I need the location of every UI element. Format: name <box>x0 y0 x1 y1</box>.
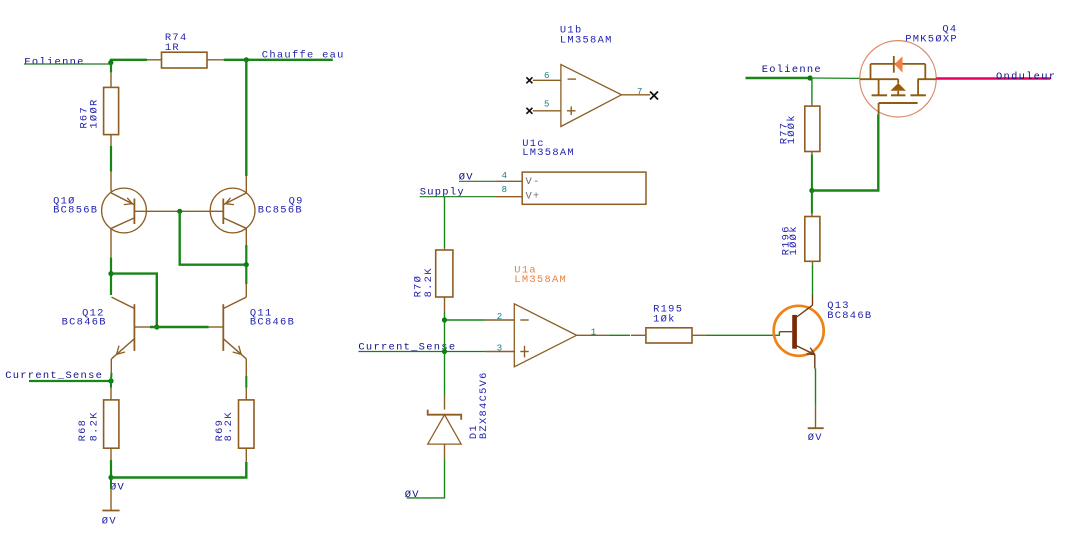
value BC846B (Q12) <box>62 317 107 329</box>
svg-text:8.2K: 8.2K <box>88 411 100 441</box>
wire R74 to Chauffe_eau <box>224 59 333 61</box>
ground 0V (left) <box>102 478 119 511</box>
value BC846B (Q11) <box>250 317 295 329</box>
svg-text:Onduleur: Onduleur <box>996 71 1056 83</box>
transistor Q9 (PNP BC856B) <box>210 188 255 245</box>
wire Q10 base to Q9 base <box>134 210 223 212</box>
wire Eolienne junction to R74 <box>111 60 147 64</box>
plus sign U1a <box>520 346 528 358</box>
node Current_Sense (left net label) <box>5 370 103 382</box>
pin number 4 <box>502 171 507 181</box>
junction dot Chauffe_eau branch <box>244 57 249 62</box>
label R69 (rotated) <box>214 419 226 442</box>
node Eolienne (right net label) <box>762 64 822 76</box>
svg-text:8: 8 <box>502 185 507 195</box>
value 10k <box>653 314 676 326</box>
minus sign U1a <box>520 319 528 321</box>
wire Q13 emitter to ground <box>814 355 817 405</box>
value PMK50XP <box>905 33 958 45</box>
wire junction down to Q9 emitter <box>245 60 247 193</box>
junction dot Current_Sense <box>108 378 113 383</box>
wire Eolienne to Q4 source <box>746 77 860 80</box>
label Q11 <box>250 308 273 320</box>
ground 0V (right) <box>808 404 824 428</box>
node Supply (net label) <box>420 187 465 199</box>
svg-text:7: 7 <box>637 87 642 97</box>
wire Q10 collector to Q12 collector <box>110 258 112 295</box>
value 100k (R77, rotated) <box>786 114 798 144</box>
op-amp U1a <box>514 304 576 367</box>
svg-text:Chauffe eau: Chauffe eau <box>262 50 345 62</box>
wire R68 to 0V rail <box>110 448 112 477</box>
resistor R67 <box>104 87 119 134</box>
svg-text:1ØØk: 1ØØk <box>786 114 798 144</box>
svg-text:4: 4 <box>502 171 507 181</box>
pin number 7 <box>637 87 642 97</box>
svg-text:Eolienne: Eolienne <box>762 64 822 76</box>
label Q9 <box>289 195 304 207</box>
wire R70 to pin 2 junction <box>444 297 446 320</box>
label R68 (rotated) <box>77 419 89 442</box>
substrate arrow of Q4 <box>890 83 906 91</box>
label 0V (ground right) <box>808 432 823 444</box>
pin 7 output stub <box>622 94 651 96</box>
pin number 2 <box>497 312 502 322</box>
value 100R (rotated) <box>89 98 101 128</box>
wire Supply down to R70 <box>444 197 446 250</box>
svg-text:BC856B: BC856B <box>53 205 98 217</box>
label R196 (rotated) <box>780 225 792 255</box>
svg-text:Eolienne: Eolienne <box>24 56 84 68</box>
pin number 6 <box>544 71 549 81</box>
op-amp U1c power box <box>522 172 646 204</box>
junction dot Q10 collector <box>108 271 113 276</box>
wire junction down to R77 <box>811 78 813 106</box>
value LM358AM (U1b) <box>560 34 613 46</box>
svg-text:6: 6 <box>544 71 549 81</box>
wire Current_Sense <box>29 380 111 382</box>
wire R67 to Q10 emitter <box>110 135 112 189</box>
wire junction to Q4 gate <box>812 115 878 191</box>
node Current_Sense (middle net label) <box>358 342 456 354</box>
resistor R69 <box>239 400 255 448</box>
svg-text:1Øk: 1Øk <box>653 314 676 326</box>
node Eolienne (left net label) <box>24 56 84 68</box>
value 8.2K (R68, rotated) <box>88 411 100 441</box>
node 0V (D1 net label) <box>405 489 420 501</box>
pin number 8 <box>502 185 507 195</box>
minus sign U1b <box>568 78 576 80</box>
junction dot Eolienne/R77 <box>807 75 812 80</box>
svg-text:BC846B: BC846B <box>250 317 295 329</box>
svg-text:8.2K: 8.2K <box>223 411 235 441</box>
resistor R195 <box>646 328 692 343</box>
wire Q13 collector up to R196 <box>812 261 814 305</box>
label U1b <box>560 25 583 37</box>
op-amp U1b <box>561 65 622 127</box>
svg-text:3: 3 <box>497 343 502 353</box>
resistor R74 <box>147 52 224 68</box>
wire Onduleur (magenta) <box>936 77 1050 79</box>
wire R77 to R196 <box>811 152 813 191</box>
node 0V (U1c pin 4 net label) <box>459 171 474 183</box>
resistor R68 <box>104 400 119 448</box>
transistor Q4 (P-MOSFET PMK50XP) <box>860 41 936 117</box>
label Q10 <box>53 195 76 207</box>
svg-text:2: 2 <box>497 312 502 322</box>
wire junction to R68 <box>110 381 112 400</box>
label R77 (rotated) <box>779 122 791 145</box>
junction dot PNP bases <box>177 209 182 214</box>
node 0V (net label left) <box>110 482 125 494</box>
wire 0V bottom rail <box>111 448 246 477</box>
svg-text:R68: R68 <box>77 419 89 442</box>
svg-text:LM358AM: LM358AM <box>560 34 613 46</box>
value BC856B (Q10) <box>53 205 98 217</box>
svg-text:V+: V+ <box>526 190 541 202</box>
wire Eolienne label stub <box>24 63 111 65</box>
svg-text:ØV: ØV <box>102 516 117 528</box>
label 0V (ground left) <box>102 516 117 528</box>
value BC856B (Q9) <box>258 205 303 217</box>
svg-text:ØV: ØV <box>808 432 823 444</box>
wire D1 to 0V <box>407 444 445 498</box>
no-connect X pin 7 <box>650 92 658 100</box>
pin 5 stub <box>533 110 561 112</box>
wire cross link to NPN bases <box>111 274 157 327</box>
value LM358AM (U1a, orange) <box>514 274 567 286</box>
wire junction down to R196 <box>811 191 813 217</box>
wire Current_Sense to pin 3 <box>358 351 514 353</box>
wire junction to pin 2 <box>445 319 515 321</box>
svg-text:5: 5 <box>544 100 549 110</box>
svg-text:ØV: ØV <box>110 482 125 494</box>
resistor R77 <box>805 106 820 151</box>
value 8.2K (R70, rotated) <box>423 267 435 297</box>
junction dot pin 2 <box>442 317 447 322</box>
pin number 3 <box>497 343 502 353</box>
svg-text:BC846B: BC846B <box>827 310 872 322</box>
svg-text:1ØØR: 1ØØR <box>89 98 101 128</box>
pin 1 output wire <box>577 334 646 336</box>
wire down to Q11 collector <box>245 265 247 297</box>
value 100k (R196, rotated) <box>788 225 800 255</box>
pin name V- <box>526 176 541 188</box>
label Q13 <box>827 300 850 312</box>
label Q4 <box>942 24 957 36</box>
value 1R <box>165 42 180 54</box>
value BC846B (Q13) <box>827 310 872 322</box>
svg-text:1R: 1R <box>165 42 180 54</box>
resistor R196 <box>805 217 820 262</box>
svg-text:BC856B: BC856B <box>258 205 303 217</box>
wire junction down to R67 <box>110 63 112 88</box>
junction dot Eolienne/R67 <box>108 60 113 65</box>
value LM358AM (U1c) <box>522 147 575 159</box>
junction dot Q9 collector <box>244 262 249 267</box>
transistor Q10 (PNP BC856B) <box>102 188 147 258</box>
svg-text:8.2K: 8.2K <box>423 267 435 297</box>
wire R195 to Q13 base <box>692 332 792 336</box>
pin number 5 <box>544 100 549 110</box>
label R70 (rotated) <box>413 275 425 298</box>
svg-text:BZX84C5V6: BZX84C5V6 <box>478 371 490 439</box>
transistor Q13 (NPN BC846B, highlighted) <box>774 305 824 356</box>
node Onduleur (net label) <box>996 71 1056 83</box>
junction dot 0V rail <box>108 475 113 480</box>
label U1a (orange) <box>514 264 537 276</box>
body diode of Q4 <box>894 56 903 73</box>
label R195 <box>653 304 683 316</box>
transistor Q12 (NPN BC846B) <box>112 297 150 359</box>
svg-text:BC846B: BC846B <box>62 317 107 329</box>
svg-text:LM358AM: LM358AM <box>514 274 567 286</box>
wire Supply to pin 8 <box>420 196 523 198</box>
wire Q11 emitter to R69 <box>245 359 247 400</box>
value 8.2K (R69, rotated) <box>223 411 235 441</box>
svg-text:1: 1 <box>591 327 596 337</box>
label U1c <box>522 138 545 150</box>
no-connect X pin 5 <box>526 108 532 114</box>
svg-text:ØV: ØV <box>405 489 420 501</box>
label Q12 <box>82 308 105 320</box>
wire bases to Q9 collector <box>180 211 247 264</box>
wire vertical to D1 <box>444 320 446 410</box>
wire Q12 emitter down <box>110 359 113 381</box>
plus sign U1b <box>567 107 576 116</box>
svg-text:1ØØk: 1ØØk <box>788 225 800 255</box>
pin number 1 <box>591 327 596 337</box>
label R67 (rotated) <box>78 106 90 129</box>
node Chauffe eau (net label) <box>262 50 345 62</box>
value BZX84C5V6 (rotated) <box>478 371 490 439</box>
pin 6 stub <box>533 79 561 81</box>
junction dot R77/R196/gate <box>809 188 814 193</box>
junction dot pin 3 <box>442 349 447 354</box>
transistor Q11 (NPN BC846B) <box>209 297 247 359</box>
label R74 <box>165 32 188 44</box>
label D1 (rotated) <box>468 424 480 439</box>
junction dot NPN base rail <box>154 324 159 329</box>
no-connect X pin 6 <box>526 77 532 83</box>
svg-text:LM358AM: LM358AM <box>522 147 575 159</box>
diode D1 (zener BZX84C5V6) <box>428 410 462 445</box>
wire NPN base rail <box>150 326 209 328</box>
resistor R70 <box>436 250 453 297</box>
pin name V+ <box>526 190 541 202</box>
svg-text:V-: V- <box>526 176 541 188</box>
wire 0V to pin 4 <box>459 180 522 182</box>
